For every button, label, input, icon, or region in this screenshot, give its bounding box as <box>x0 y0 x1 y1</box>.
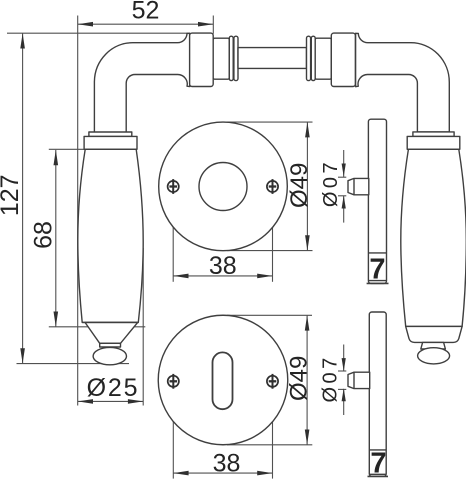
svg-text:127: 127 <box>0 174 24 216</box>
svg-text:7: 7 <box>369 254 385 286</box>
svg-text:38: 38 <box>213 449 241 477</box>
svg-text:Ø07: Ø07 <box>320 354 342 402</box>
svg-text:38: 38 <box>209 252 237 280</box>
svg-text:52: 52 <box>132 0 160 25</box>
svg-text:Ø25: Ø25 <box>87 374 140 402</box>
svg-text:Ø49: Ø49 <box>286 356 313 401</box>
svg-text:7: 7 <box>370 447 386 479</box>
svg-text:Ø07: Ø07 <box>320 159 342 207</box>
svg-text:68: 68 <box>30 221 58 249</box>
svg-text:Ø49: Ø49 <box>286 163 313 208</box>
